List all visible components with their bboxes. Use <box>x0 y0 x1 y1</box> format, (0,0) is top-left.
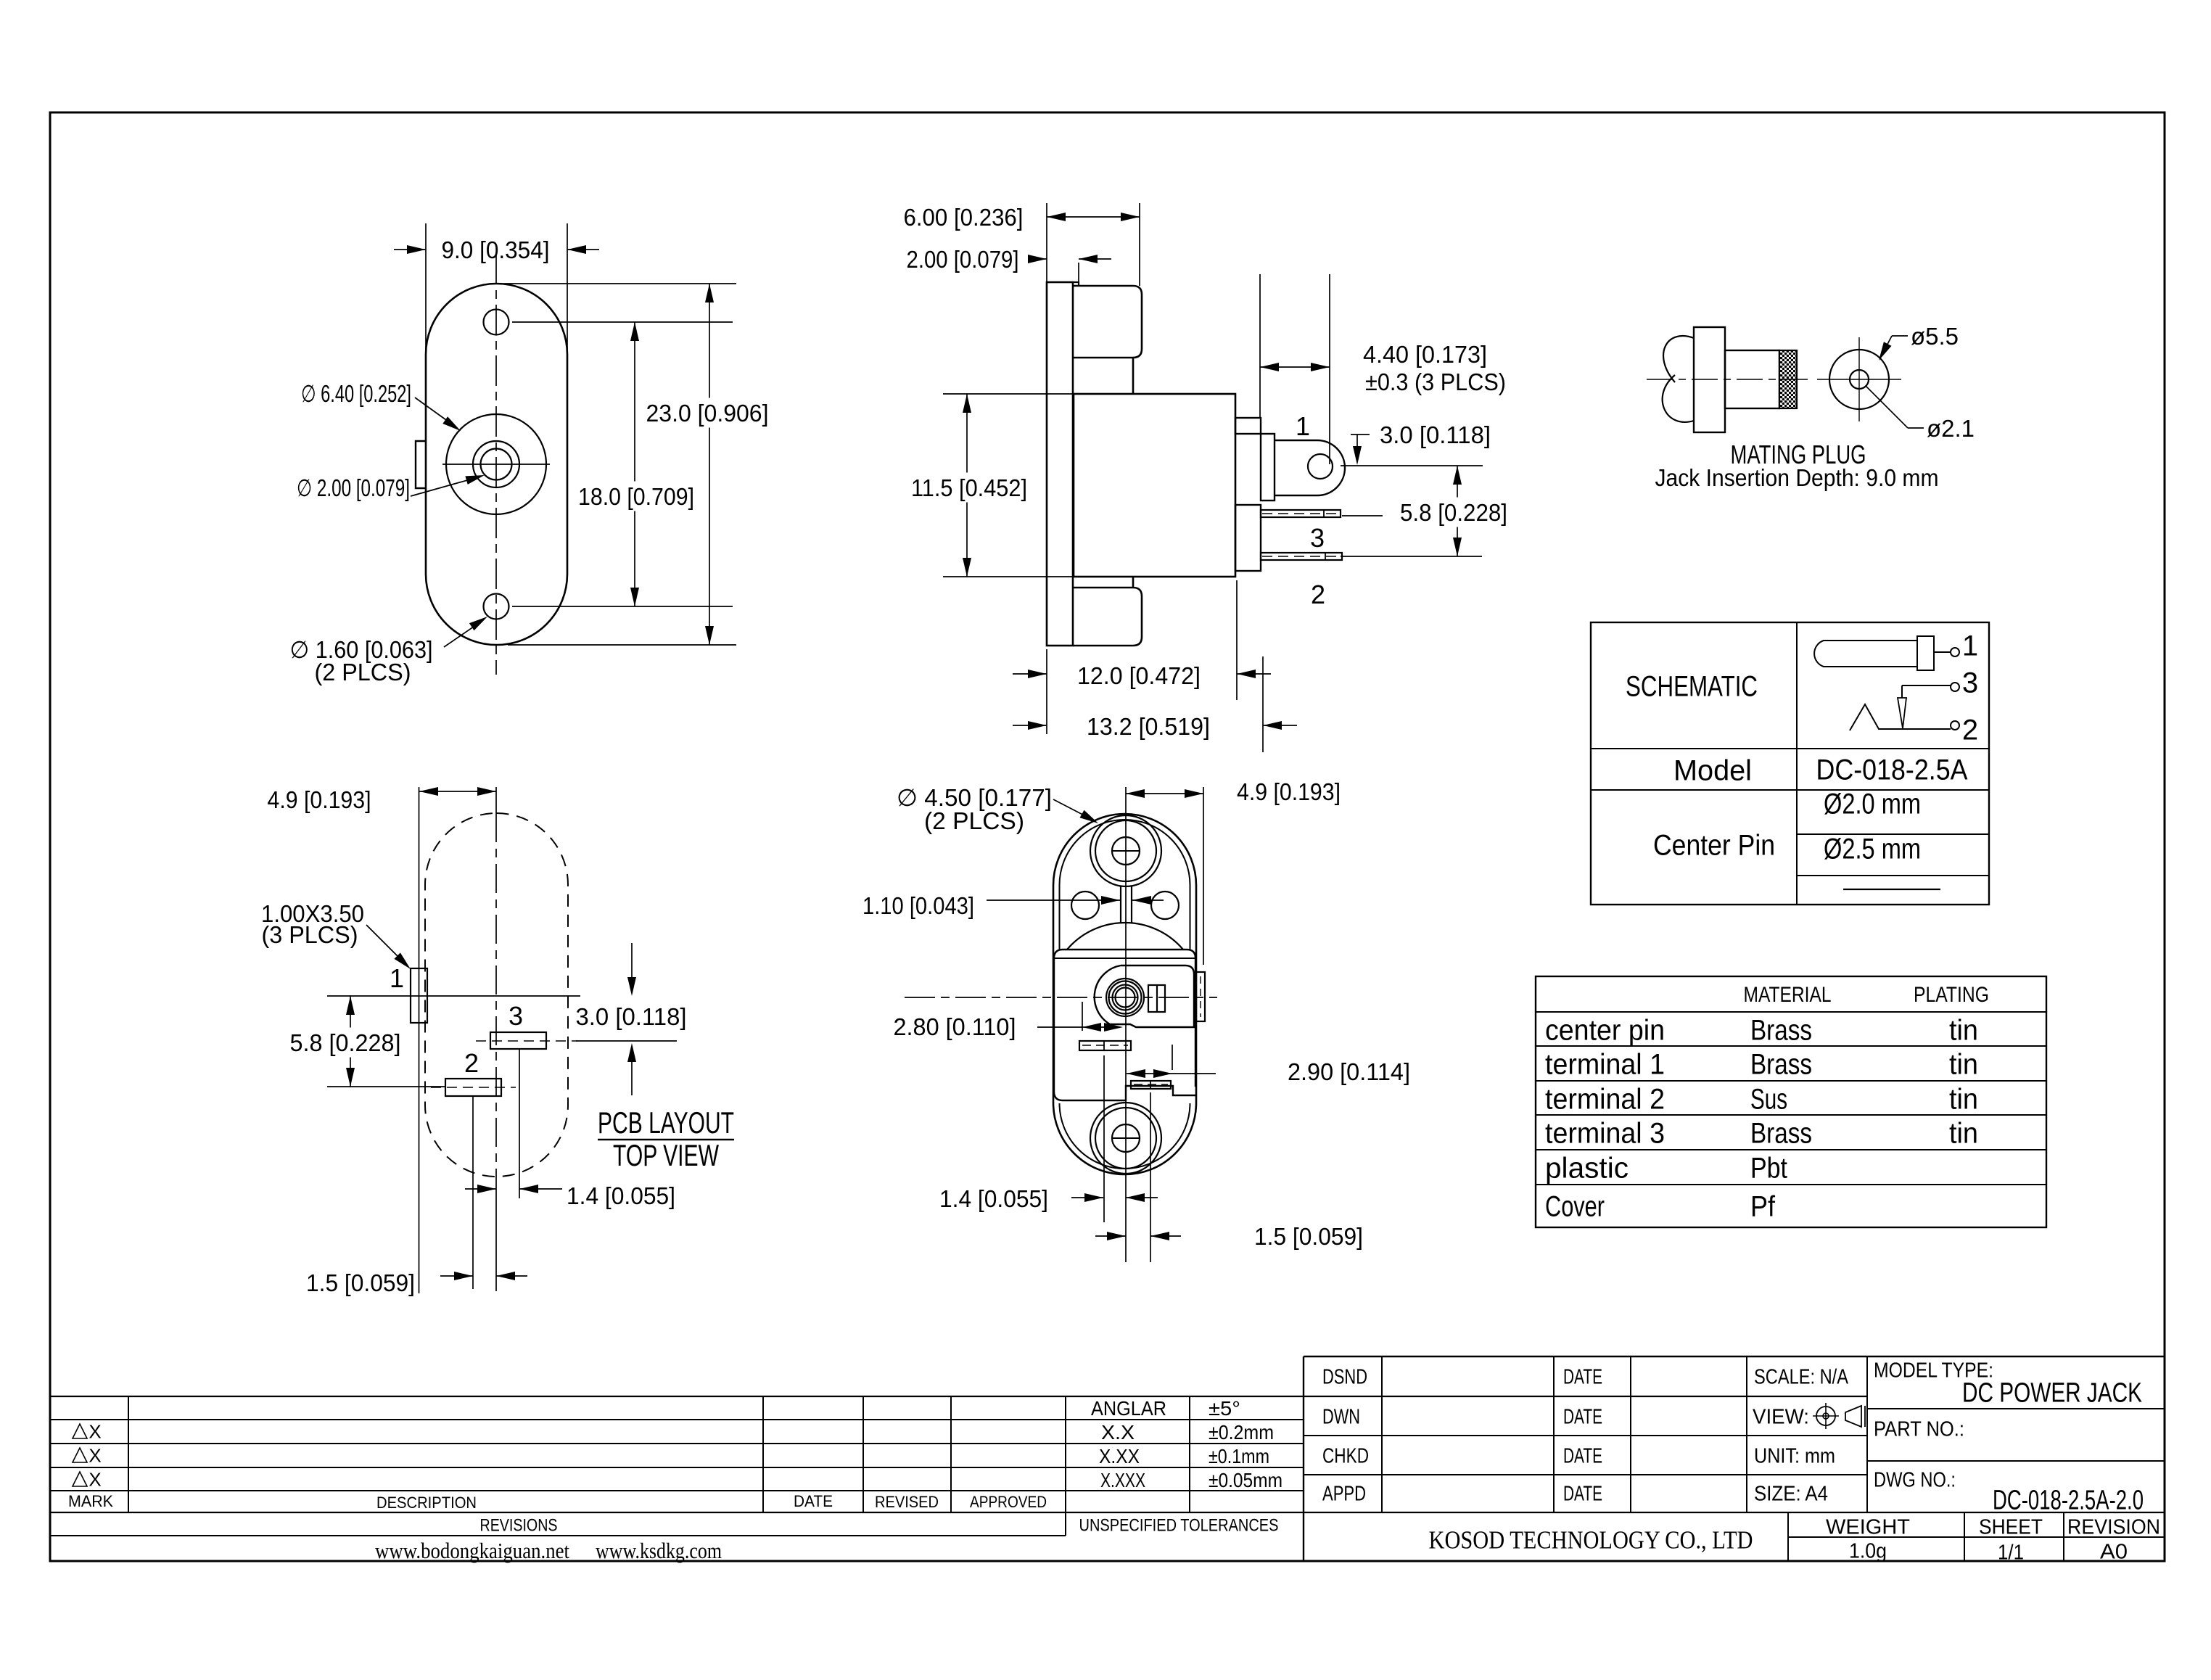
front view horizontal centerline <box>442 464 550 465</box>
svg-text:center pin: center pin <box>1545 1014 1665 1046</box>
dim 2.90 ext line <box>1172 1045 1173 1070</box>
svg-text:2.80 [0.110]: 2.80 [0.110] <box>894 1013 1016 1040</box>
side view flange lip step <box>1073 282 1079 286</box>
view third angle symbol <box>1816 1407 1835 1425</box>
dim 5.8 line <box>1457 466 1458 556</box>
dim 11.5 text <box>904 473 1034 503</box>
svg-text:DC-018-2.5A-2.0: DC-018-2.5A-2.0 <box>1993 1486 2144 1516</box>
svg-text:ø5.5: ø5.5 <box>1911 323 1959 350</box>
svg-text:Jack Insertion Depth: 9.0 mm: Jack Insertion Depth: 9.0 mm <box>1655 464 1939 491</box>
dim 12.0 arrows <box>1013 673 1047 675</box>
svg-text:KOSOD TECHNOLOGY CO., LTD: KOSOD TECHNOLOGY CO., LTD <box>1429 1526 1753 1555</box>
title block outline <box>1304 1356 2165 1357</box>
svg-text:DATE: DATE <box>1563 1405 1602 1428</box>
schematic symbol jack sleeve <box>1814 641 1917 667</box>
svg-text:DESCRIPTION: DESCRIPTION <box>376 1494 477 1512</box>
svg-text:1.4 [0.055]: 1.4 [0.055] <box>567 1182 675 1209</box>
svg-text:2.00 [0.079]: 2.00 [0.079] <box>907 246 1019 273</box>
svg-text:3: 3 <box>1310 523 1325 553</box>
svg-text:Center Pin: Center Pin <box>1653 829 1775 861</box>
svg-text:1.4 [0.055]: 1.4 [0.055] <box>939 1185 1048 1212</box>
svg-text:2.90 [0.114]: 2.90 [0.114] <box>1288 1058 1410 1085</box>
dim 13.2 arrows <box>1013 725 1047 726</box>
mating plug cap <box>1694 327 1725 432</box>
svg-text:tin: tin <box>1949 1083 1978 1115</box>
pcb layout pin2 row line <box>327 1086 445 1087</box>
bottom view jack shroud outline <box>1095 965 1194 1027</box>
bottom view stadium outline <box>1053 814 1196 1174</box>
dim 2.80 line <box>1037 1026 1097 1028</box>
svg-text:2: 2 <box>464 1048 479 1078</box>
bottom view terminal1 riser block <box>1148 985 1165 1012</box>
svg-text:23.0 [0.906]: 23.0 [0.906] <box>646 400 769 427</box>
svg-text:ANGLAR: ANGLAR <box>1091 1397 1166 1420</box>
svg-text:WEIGHT: WEIGHT <box>1826 1515 1910 1539</box>
svg-text:∅ 6.40 [0.252]: ∅ 6.40 [0.252] <box>301 380 411 407</box>
schematic symbol switch blade <box>1850 704 1951 730</box>
svg-text:APPROVED: APPROVED <box>970 1493 1047 1511</box>
pin1 centerline reference <box>1341 465 1483 466</box>
dim 12.0 extension lines <box>1046 649 1047 734</box>
dim 23.0 extension lines <box>504 283 736 284</box>
revisions table outer and rows <box>50 1396 1867 1397</box>
dim 11.5 line <box>966 394 968 577</box>
dim 18.0 line <box>634 322 635 606</box>
front view jack middle circle <box>473 441 519 487</box>
dim 5.8 text <box>1393 498 1515 527</box>
side view terminal 2 strip <box>1261 553 1342 560</box>
svg-text:X: X <box>88 1444 101 1466</box>
dim 11.5 extension lines <box>943 393 1072 395</box>
svg-text:X: X <box>88 1420 101 1442</box>
svg-text:1.0g: 1.0g <box>1849 1539 1887 1562</box>
side view bottom barrel <box>1073 588 1142 646</box>
svg-text:Ø2.0 mm: Ø2.0 mm <box>1824 788 1921 820</box>
schematic symbol sleeve block <box>1917 636 1934 670</box>
svg-text:1.10 [0.043]: 1.10 [0.043] <box>862 892 974 919</box>
svg-text:1: 1 <box>390 963 404 993</box>
svg-text:REVISION: REVISION <box>2067 1515 2160 1539</box>
svg-text:PLATING: PLATING <box>1914 983 1989 1007</box>
dim 5.8 pcb text <box>283 1028 408 1058</box>
svg-text:terminal 1: terminal 1 <box>1545 1048 1665 1080</box>
svg-text:CHKD: CHKD <box>1322 1444 1369 1467</box>
svg-text:A0: A0 <box>2100 1540 2128 1563</box>
bottom view inner wall bottom arc <box>1060 1103 1190 1169</box>
svg-text:1: 1 <box>1962 630 1978 662</box>
dim 1.10 line <box>987 899 1120 901</box>
svg-text:4.9 [0.193]: 4.9 [0.193] <box>1237 778 1341 805</box>
pin2 reference line <box>1341 556 1482 557</box>
svg-text:1.5 [0.059]: 1.5 [0.059] <box>1254 1223 1363 1250</box>
dim 23.0 text <box>639 398 776 428</box>
dim 4.40 extension lines <box>1259 274 1261 418</box>
svg-text:DSND: DSND <box>1322 1365 1367 1388</box>
svg-text:9.0 [0.354]: 9.0 [0.354] <box>442 236 550 263</box>
front view top mounting hole <box>484 310 509 335</box>
svg-text:±0.05mm: ±0.05mm <box>1209 1469 1282 1491</box>
svg-text:Model: Model <box>1673 754 1752 786</box>
dim 1.5 pcb arrows <box>440 1275 473 1277</box>
svg-text:1/1: 1/1 <box>1998 1541 2024 1564</box>
svg-text:13.2 [0.519]: 13.2 [0.519] <box>1087 713 1210 740</box>
svg-text:MARK: MARK <box>68 1492 113 1510</box>
dim 2.00 arrows <box>1037 258 1047 260</box>
schematic symbol terminal 1 circle <box>1951 648 1959 656</box>
pcb layout pin2 slot center ext <box>472 1096 474 1289</box>
svg-text:5.8 [0.228]: 5.8 [0.228] <box>1400 499 1507 526</box>
dim 3.0 tick and arrow <box>1351 434 1370 435</box>
bottom view central body inner step line <box>1054 958 1195 959</box>
revisions table revised column divider <box>862 1396 864 1512</box>
schematic table vertical divider <box>1796 622 1798 905</box>
mating plug centerline <box>1647 379 1813 380</box>
side view main body <box>1074 394 1235 577</box>
pcb layout pin1 slot <box>411 968 427 1023</box>
tolerance table middle divider <box>1189 1396 1190 1512</box>
side view pin1 top block <box>1235 418 1261 434</box>
pcb layout pin1 slot centerline vertical <box>419 787 420 1293</box>
svg-text:±0.1mm: ±0.1mm <box>1209 1445 1269 1467</box>
svg-text:2: 2 <box>1962 714 1978 746</box>
svg-text:SCHEMATIC: SCHEMATIC <box>1626 670 1758 702</box>
svg-text:plastic: plastic <box>1545 1152 1629 1184</box>
bottom view top screw hole <box>1112 837 1140 865</box>
svg-text:3.0 [0.118]: 3.0 [0.118] <box>576 1003 687 1030</box>
svg-text:terminal 3: terminal 3 <box>1545 1117 1665 1149</box>
svg-text:∅ 2.00 [0.079]: ∅ 2.00 [0.079] <box>297 474 410 501</box>
bottom view rib slot 1.10 <box>1120 886 1121 923</box>
bottom view inner wall top arc <box>1060 820 1190 885</box>
side view terminal 3 strip <box>1261 510 1341 517</box>
side view lower pins block <box>1235 505 1261 571</box>
title block column dividers <box>1381 1356 1383 1512</box>
svg-text:DATE: DATE <box>794 1492 833 1510</box>
front view flange outline <box>426 284 567 645</box>
mating plug barrel <box>1725 350 1779 408</box>
pcb layout pin1 row line <box>327 995 580 997</box>
svg-text:terminal 2: terminal 2 <box>1545 1083 1665 1115</box>
svg-text:±5°: ±5° <box>1209 1397 1240 1420</box>
bottom view pin2 slot <box>1079 1041 1131 1050</box>
svg-text:www.bodongkaiguan.net: www.bodongkaiguan.net <box>375 1538 569 1563</box>
svg-text:Brass: Brass <box>1750 1117 1812 1149</box>
svg-text:DWG NO.:: DWG NO.: <box>1874 1468 1956 1491</box>
side view pin1 bracket <box>1261 434 1275 501</box>
svg-text:REVISED: REVISED <box>875 1493 939 1511</box>
svg-text:VIEW:: VIEW: <box>1753 1405 1809 1428</box>
svg-text:(2 PLCS): (2 PLCS) <box>924 807 1024 834</box>
svg-text:DC-018-2.5A: DC-018-2.5A <box>1816 754 1968 786</box>
svg-text:1.5 [0.059]: 1.5 [0.059] <box>306 1269 415 1296</box>
bottom view pin3 slot <box>1131 1081 1171 1089</box>
side view terminal 1 hole <box>1308 454 1333 479</box>
bottom view dome arc <box>1067 923 1183 950</box>
schematic table sub row line b <box>1797 875 1989 876</box>
dim 9.0 extension lines <box>425 223 427 355</box>
svg-text:±0.3 (3 PLCS): ±0.3 (3 PLCS) <box>1365 368 1506 395</box>
bottom view central body outline <box>1054 950 1195 1100</box>
svg-text:Pf: Pf <box>1750 1190 1776 1222</box>
weight sheet revision dividers <box>1787 1512 1789 1561</box>
side view bottom neck line <box>1132 577 1135 588</box>
svg-text:2: 2 <box>1311 580 1325 609</box>
side view terminal 1 lug <box>1275 440 1345 495</box>
svg-text:TOP VIEW: TOP VIEW <box>613 1138 719 1172</box>
svg-text:UNIT: mm: UNIT: mm <box>1754 1444 1835 1467</box>
mating plug crosshair <box>1817 379 1901 380</box>
side view top neck line <box>1132 358 1135 394</box>
svg-text:DC POWER JACK: DC POWER JACK <box>1962 1378 2142 1409</box>
dim 4.9 bottom ext line <box>1203 787 1204 965</box>
svg-text:1: 1 <box>1296 411 1310 441</box>
revisions table mark column divider <box>128 1396 129 1512</box>
mating plug front view outer circle dia 5.5 <box>1829 350 1889 409</box>
schematic table row line 1 <box>1591 748 1989 749</box>
dim 4.9 bottom line <box>1126 793 1203 794</box>
svg-text:tin: tin <box>1949 1117 1978 1149</box>
pcb layout pin3 slot <box>490 1032 546 1049</box>
dim 2.80 ext line <box>1082 1002 1083 1031</box>
svg-text:Brass: Brass <box>1750 1048 1812 1080</box>
pcb layout pin3 row line right <box>576 1040 677 1042</box>
dim 13.2 extension line <box>1262 656 1264 752</box>
pcb layout pin2 slot <box>445 1079 501 1096</box>
side view top barrel <box>1073 286 1142 358</box>
svg-text:UNSPECIFIED TOLERANCES: UNSPECIFIED TOLERANCES <box>1079 1516 1279 1536</box>
title block right section rows <box>1867 1408 2165 1409</box>
front view left notch <box>416 441 426 488</box>
svg-text:Ø2.5 mm: Ø2.5 mm <box>1824 833 1921 865</box>
schematic table row line 2 <box>1591 789 1989 791</box>
svg-text:DATE: DATE <box>1563 1444 1602 1467</box>
svg-text:X.X: X.X <box>1101 1421 1135 1444</box>
revisions table date column divider <box>762 1396 764 1512</box>
bottom view pin3 center ext line <box>1150 1092 1151 1262</box>
svg-text:3: 3 <box>1962 667 1978 699</box>
bottom view bottom screw boss <box>1090 1103 1161 1174</box>
svg-text:www.ksdkg.com: www.ksdkg.com <box>596 1538 722 1563</box>
schematic symbol wire to 3 <box>1902 685 1951 686</box>
svg-text:DATE: DATE <box>1563 1482 1602 1505</box>
svg-text:SCALE: N/A: SCALE: N/A <box>1754 1365 1849 1388</box>
schematic table sub row line a <box>1797 833 1989 835</box>
mating plug cable boot <box>1663 336 1694 382</box>
svg-text:X: X <box>88 1468 101 1490</box>
svg-text:3: 3 <box>509 1001 523 1031</box>
revision mark triangle symbols <box>73 1424 87 1438</box>
svg-text:(2 PLCS): (2 PLCS) <box>315 659 411 685</box>
dim 1.4 bottom arrows <box>1071 1197 1103 1198</box>
dim 1.4 pcb arrows <box>465 1188 496 1190</box>
front view jack outer circle dia 6.40 <box>446 414 546 514</box>
revisions table approved column divider <box>950 1396 952 1512</box>
schematic symbol center pin needle <box>1898 698 1906 728</box>
dim 6.00 extension lines <box>1046 203 1047 282</box>
material table frame <box>1536 976 2046 1227</box>
side view flange plate <box>1047 282 1073 646</box>
svg-text:tin: tin <box>1949 1014 1978 1046</box>
mating plug front view inner circle dia 2.1 <box>1850 370 1869 389</box>
svg-text:MATERIAL: MATERIAL <box>1744 983 1832 1007</box>
bottom view jack circles <box>1106 979 1144 1016</box>
svg-text:Brass: Brass <box>1750 1014 1812 1046</box>
svg-text:3.0 [0.118]: 3.0 [0.118] <box>1380 421 1491 448</box>
svg-text:DWN: DWN <box>1322 1405 1360 1428</box>
svg-text:X.XX: X.XX <box>1099 1445 1140 1467</box>
dim 1.5 bottom arrows <box>1095 1235 1126 1237</box>
title block row lines left part <box>1304 1396 1867 1397</box>
bottom view horizontal centerline <box>905 997 1217 998</box>
svg-text:11.5 [0.452]: 11.5 [0.452] <box>911 474 1027 501</box>
dim 3.0 pcb arrows <box>631 943 633 992</box>
svg-text:APPD: APPD <box>1322 1482 1366 1505</box>
svg-text:tin: tin <box>1949 1048 1978 1080</box>
svg-text:12.0 [0.472]: 12.0 [0.472] <box>1077 662 1201 689</box>
bottom view vertical centerline <box>1125 787 1127 1262</box>
dim 5.8 pcb line <box>350 996 351 1087</box>
material table row lines <box>1536 1011 2046 1013</box>
pcb layout vertical centerline <box>495 787 497 813</box>
dim 4.9 pcb line <box>419 791 496 792</box>
bottom view side holes <box>1071 892 1099 919</box>
svg-text:ø2.1: ø2.1 <box>1927 415 1975 442</box>
svg-text:PART NO.:: PART NO.: <box>1874 1417 1964 1441</box>
svg-text:X.XXX: X.XXX <box>1100 1469 1145 1491</box>
bottom view bottom screw hole <box>1112 1124 1140 1152</box>
dim 4.40 line <box>1260 366 1330 368</box>
svg-text:PCB LAYOUT: PCB LAYOUT <box>598 1105 734 1140</box>
svg-text:DATE: DATE <box>1563 1365 1602 1388</box>
bottom view side tab <box>1196 972 1205 1021</box>
svg-text:Sus: Sus <box>1750 1083 1787 1115</box>
svg-text:4.9 [0.193]: 4.9 [0.193] <box>268 786 371 813</box>
schematic symbol terminal 2 circle <box>1951 721 1959 730</box>
front view vertical centerline <box>495 254 497 675</box>
dim 9.0 arrows and text <box>394 249 426 250</box>
svg-text:4.40 [0.173]: 4.40 [0.173] <box>1363 341 1487 368</box>
svg-text:±0.2mm: ±0.2mm <box>1209 1421 1274 1444</box>
svg-text:Pbt: Pbt <box>1750 1152 1787 1184</box>
pcb layout dashed stadium outline <box>425 813 568 1177</box>
dim 6.00 line <box>1047 216 1140 218</box>
svg-text:SHEET: SHEET <box>1979 1515 2043 1539</box>
svg-text:5.8 [0.228]: 5.8 [0.228] <box>290 1029 401 1056</box>
svg-text:REVISIONS: REVISIONS <box>480 1516 558 1536</box>
svg-text:6.00 [0.236]: 6.00 [0.236] <box>904 204 1024 231</box>
svg-text:Cover: Cover <box>1545 1190 1605 1222</box>
dim 18.0 text <box>575 482 698 511</box>
schematic symbol terminal 3 circle <box>1951 683 1959 691</box>
svg-text:18.0 [0.709]: 18.0 [0.709] <box>578 483 694 510</box>
front view jack pin circle dia 2.00 <box>481 449 512 480</box>
svg-text:SIZE: A4: SIZE: A4 <box>1754 1482 1828 1505</box>
schematic symbol wire to 1 <box>1934 651 1951 653</box>
dim 2.90 line <box>1127 1073 1172 1074</box>
bottom view pin2 center ext line <box>1103 1055 1105 1222</box>
dim 2.00 extension line <box>1078 263 1079 286</box>
front view bottom mounting hole <box>484 594 509 619</box>
svg-text:(3 PLCS): (3 PLCS) <box>262 921 358 948</box>
schematic table frame <box>1591 622 1989 905</box>
dim 23.0 line <box>709 284 710 645</box>
center pin blank cell dash <box>1843 889 1940 890</box>
dim 18.0 extension lines <box>512 321 733 323</box>
pcb layout pin3 slot center ext <box>519 1049 520 1198</box>
tolerance table left divider <box>1065 1396 1066 1536</box>
bottom view top screw boss <box>1090 815 1161 886</box>
